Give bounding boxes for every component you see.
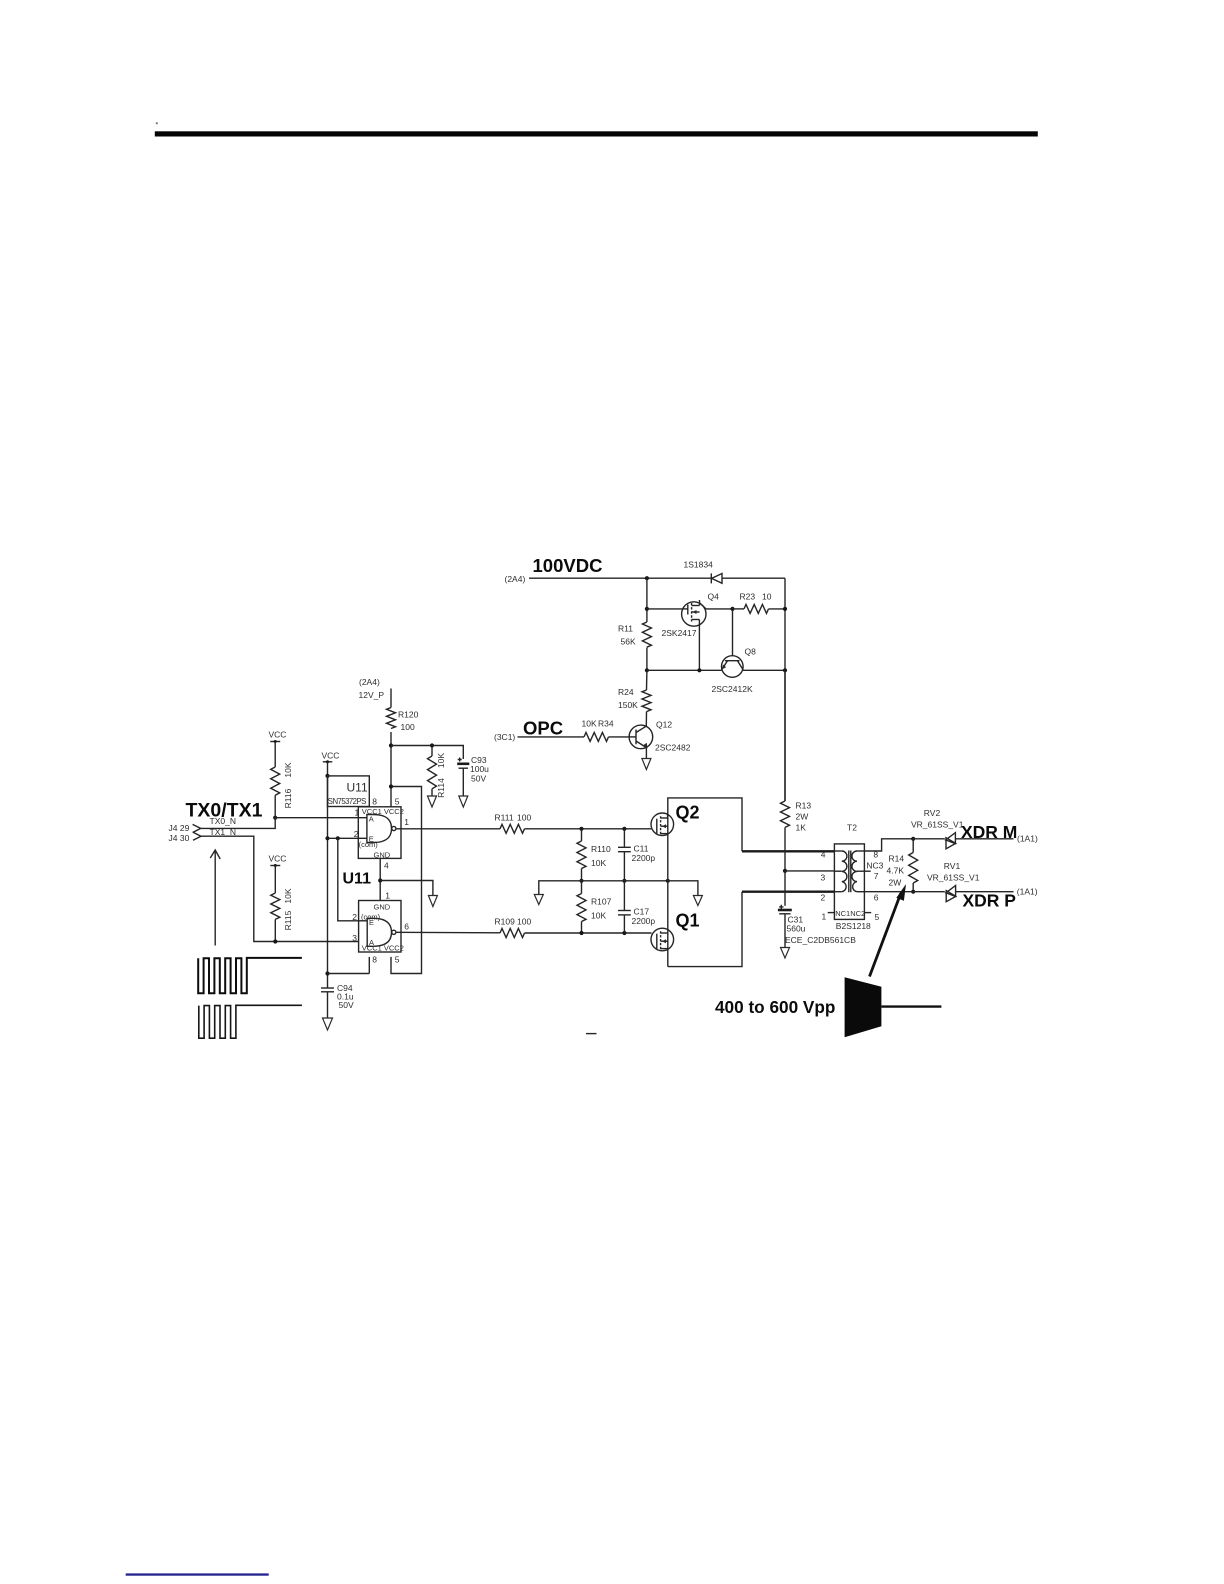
svg-text:5: 5 [395, 797, 400, 807]
svg-text:3: 3 [821, 873, 826, 883]
node junction mid row box edge [666, 879, 670, 883]
capacitor C17 2200p [618, 881, 655, 933]
node junction R14 bottom [911, 890, 915, 894]
svg-text:50V: 50V [339, 1000, 354, 1010]
svg-text:(2A4): (2A4) [359, 677, 380, 687]
capacitor C31 560u [778, 905, 856, 947]
resistor R14 4.7K 2W [887, 839, 918, 892]
transformer T2 B2S1218 [821, 823, 884, 931]
wire Q12 emitter [645, 748, 647, 758]
svg-text:150K: 150K [618, 700, 638, 710]
wire C31 stem [784, 871, 786, 906]
svg-text:XDR P: XDR P [963, 891, 1017, 911]
transistor Q8 2SC2412K [712, 647, 757, 695]
node junction C17 bottom [622, 931, 626, 935]
svg-text:Q2: Q2 [676, 803, 700, 823]
svg-text:2200p: 2200p [632, 916, 656, 926]
label XDR M [961, 822, 1017, 842]
wire pin4 ground branch [380, 881, 433, 896]
svg-text:100u: 100u [470, 764, 489, 774]
pin 6 label output [404, 922, 409, 932]
annotation up-arrow [210, 850, 220, 946]
wire E input row [328, 837, 359, 839]
sheet ref (1A1) lower [1017, 887, 1038, 897]
wire 12V_P rail [390, 689, 392, 808]
resistor R116 10K [271, 742, 293, 818]
svg-text:R114: R114 [436, 778, 446, 798]
svg-text:VCC: VCC [269, 730, 287, 740]
svg-text:R24: R24 [618, 687, 634, 697]
pin 3 label lower gate [352, 933, 357, 943]
pin 2 label lower gate [352, 912, 357, 922]
ground mid right [693, 896, 702, 906]
capacitor C11 2200p [618, 829, 655, 881]
pin 5 label lower gate [395, 955, 400, 965]
ground below C31 [781, 948, 790, 959]
svg-text:GND: GND [374, 850, 391, 859]
transistor Q4 2SK2417 MOSFET [662, 592, 733, 671]
svg-text:5: 5 [395, 955, 400, 965]
svg-text:VR_61SS_V1: VR_61SS_V1 [911, 819, 964, 829]
resistor R114 10K [428, 746, 447, 798]
wire 100VDC horizontal [529, 577, 711, 579]
svg-text:4: 4 [384, 861, 389, 871]
wire XDR P line [864, 891, 1013, 893]
gate U11B box [359, 901, 404, 953]
resistor R11 56K [618, 578, 651, 670]
pin 1 label lower gate top [385, 891, 390, 901]
node junction R11 bottom [645, 668, 649, 672]
wire T2 pin3 [785, 870, 834, 872]
node junction pin4 / gnd branch [378, 878, 382, 882]
power VCC (R116) [269, 730, 287, 744]
pin 1 label output [404, 817, 409, 827]
svg-text:U11: U11 [347, 781, 368, 795]
transistor Q2 MOSFET [651, 803, 700, 836]
wire R114 C93 row [391, 746, 463, 760]
svg-text:2W: 2W [796, 812, 809, 822]
svg-text:8: 8 [372, 797, 377, 807]
waveform lower square wave [199, 1005, 302, 1038]
net label TX1_N [210, 827, 236, 837]
pin 5 label top gate [395, 797, 400, 807]
wire Q8 base vertical [732, 609, 734, 656]
svg-text:10: 10 [762, 592, 772, 602]
node junction R13 bottom / T2 pin3 [783, 869, 787, 873]
svg-text:56K: 56K [621, 637, 636, 647]
svg-text:R23: R23 [740, 592, 756, 602]
svg-text:Q12: Q12 [656, 720, 672, 730]
wire mid row [582, 880, 668, 882]
node junction R109 / R107 [579, 931, 583, 935]
resistor R120 100 [387, 708, 419, 733]
label TX0/TX1 [186, 800, 263, 822]
svg-text:1S1834: 1S1834 [684, 560, 714, 570]
svg-text:R116: R116 [283, 788, 293, 808]
svg-text:J4 29: J4 29 [169, 823, 190, 833]
svg-text:C11: C11 [634, 844, 649, 854]
transducer symbol (black horn) [845, 977, 882, 1037]
wire TX1_N [201, 836, 359, 941]
svg-text:4: 4 [821, 850, 826, 860]
svg-text:R111: R111 [495, 813, 514, 823]
waveform upper square wave [198, 958, 302, 993]
svg-text:R34: R34 [598, 719, 614, 729]
svg-text:8: 8 [372, 955, 377, 965]
power VCC (R115) [269, 854, 287, 868]
svg-text:10K: 10K [283, 762, 293, 777]
svg-text:3: 3 [352, 933, 357, 943]
node junction R115 / TX1 wire [273, 939, 277, 943]
svg-text:A: A [369, 938, 374, 947]
wire TX0_N [201, 818, 359, 829]
svg-text:100VDC: 100VDC [533, 555, 603, 576]
resistor R110 10K [577, 829, 611, 881]
small dash mark [586, 1033, 597, 1035]
sheet ref (2A4) [505, 574, 526, 584]
svg-text:E: E [369, 918, 374, 927]
svg-text:RV2: RV2 [924, 808, 941, 818]
node junction R116 / TX0 wire [273, 816, 277, 820]
BOTTOM navy rule [126, 1573, 269, 1575]
svg-text:6: 6 [874, 892, 879, 902]
wire from transducer [881, 1005, 941, 1007]
driver block box [668, 798, 742, 967]
node junction rail / U11 bottom row [325, 971, 329, 975]
svg-text:2200p: 2200p [632, 853, 656, 863]
wire primary top (thick) [742, 850, 834, 852]
node junction rail / U11 box top [325, 774, 329, 778]
svg-text:R120: R120 [398, 710, 419, 720]
svg-text:10K: 10K [591, 911, 606, 921]
ground below pin4 branch [428, 896, 437, 907]
svg-text:7: 7 [874, 871, 879, 881]
svg-text:Q1: Q1 [676, 911, 700, 931]
svg-text:2SK2417: 2SK2417 [662, 628, 697, 638]
node junction R23 right rail [783, 607, 787, 611]
node junction E row branch [336, 836, 340, 840]
header rule [155, 122, 1038, 136]
node junction 12V rail / pin5 [389, 784, 393, 788]
svg-text:50V: 50V [471, 774, 486, 784]
svg-text:RV1: RV1 [944, 861, 961, 871]
svg-text:2W: 2W [889, 878, 902, 888]
transistor Q12 2SC2482 [629, 720, 691, 753]
node junction on 100VDC line [645, 576, 649, 580]
annotation big arrow [870, 884, 907, 977]
net label TX0_N [210, 816, 236, 826]
resistor R107 10K [577, 881, 612, 933]
diode D1 1S1834 [684, 560, 786, 584]
svg-text:10K: 10K [283, 888, 293, 903]
ground below C94 [323, 1018, 333, 1030]
node junction 12V rail / R114 row [389, 743, 393, 747]
svg-text:2: 2 [352, 912, 357, 922]
svg-text:1K: 1K [796, 823, 807, 833]
gate U11A NAND shape [358, 814, 396, 843]
resistor R13 2W 1K [781, 670, 812, 871]
svg-text:(1A1): (1A1) [1017, 834, 1038, 844]
svg-text:1: 1 [404, 817, 409, 827]
wire U11 left rail [327, 762, 329, 988]
wire T2 pin8 to XDR M [864, 839, 913, 851]
svg-text:R115: R115 [283, 910, 293, 930]
resistor R34 10K [582, 719, 630, 742]
svg-text:100: 100 [517, 813, 531, 823]
svg-text:(3C1): (3C1) [494, 732, 515, 742]
svg-text:R107: R107 [591, 897, 612, 907]
svg-text:NC1NC2: NC1NC2 [835, 909, 865, 918]
svg-text:Q4: Q4 [708, 592, 720, 602]
pin 8 label lower gate [372, 955, 377, 965]
op-amp U11 label box SN75372PS [328, 776, 370, 807]
svg-text:4.7K: 4.7K [887, 866, 905, 876]
svg-text:R13: R13 [796, 801, 812, 811]
svg-text:12V_P: 12V_P [359, 690, 385, 700]
node junction mid row R110 [579, 879, 583, 883]
wire right rail vertical [784, 578, 786, 801]
node junction Q8 collector rail [783, 668, 787, 672]
node junction R11 top / Q4 gate [645, 607, 649, 611]
node junction R114 top [430, 743, 434, 747]
ground below C93 [459, 796, 468, 807]
svg-text:(2A4): (2A4) [505, 574, 526, 584]
svg-text:6: 6 [404, 922, 409, 932]
wire mid right ground branch [668, 881, 698, 895]
svg-text:R109: R109 [495, 917, 516, 927]
svg-text:VCC: VCC [269, 854, 287, 864]
connector pin J4 29 [169, 823, 201, 833]
svg-text:R14: R14 [889, 854, 905, 864]
net label OPC [523, 718, 563, 739]
svg-text:1: 1 [385, 891, 390, 901]
sheet ref (1A1) upper [1017, 834, 1038, 844]
svg-text:2SC2482: 2SC2482 [655, 743, 691, 753]
svg-text:R11: R11 [618, 624, 633, 634]
sheet ref (2A4) 12V_P [359, 677, 385, 700]
svg-text:1: 1 [822, 912, 827, 922]
capacitor C94 0.1u 50V [321, 983, 354, 1018]
power VCC (U11 rail) [322, 750, 340, 763]
gate U11B NAND shape [359, 918, 396, 947]
wire Q4 gate [647, 608, 683, 610]
svg-text:ECE_C2DB561CB: ECE_C2DB561CB [785, 935, 856, 945]
node junction R111 / R110 [579, 827, 583, 831]
resistor R109 100 [495, 917, 652, 938]
svg-text:2: 2 [354, 829, 359, 839]
wire Q8 row [647, 669, 785, 671]
annotation 400 to 600 Vpp [715, 997, 835, 1017]
svg-text:E: E [369, 834, 374, 843]
svg-text:100: 100 [517, 917, 531, 927]
resistor R23 10 [733, 592, 786, 614]
wire gate1 output to R111 [396, 828, 500, 830]
pin 1 label input [355, 807, 360, 817]
svg-text:100: 100 [401, 722, 415, 732]
gate U11A box [358, 807, 404, 860]
node junction rail / gate E row [325, 836, 329, 840]
resistor R24 150K [618, 670, 651, 726]
svg-text:VR_61SS_V1: VR_61SS_V1 [927, 872, 980, 882]
pin 8 label top gate [372, 797, 377, 807]
svg-text:5: 5 [875, 912, 880, 922]
svg-text:J4 30: J4 30 [169, 833, 190, 843]
varistor RV1 VR_61SS_V1 [927, 861, 980, 902]
wire gate2 output to R109 [396, 931, 500, 934]
svg-text:VCC: VCC [322, 750, 340, 760]
svg-text:2: 2 [821, 892, 826, 902]
resistor R115 10K [271, 866, 293, 942]
svg-text:10K: 10K [582, 719, 597, 729]
svg-text:2SC2412K: 2SC2412K [712, 684, 753, 694]
sheet ref (3C1) [494, 732, 515, 742]
resistor R111 100 [495, 813, 652, 834]
svg-text:1: 1 [355, 807, 360, 817]
svg-text:NC3: NC3 [866, 861, 883, 871]
pin 2 label input [354, 829, 359, 839]
svg-text:T2: T2 [847, 823, 857, 833]
wire mid ground branch [539, 881, 582, 894]
transistor Q1 MOSFET [651, 911, 700, 951]
svg-text:400 to 600 Vpp: 400 to 600 Vpp [715, 997, 835, 1017]
wire OPC [518, 736, 585, 738]
node junction Q4 source on Q8 row [697, 668, 701, 672]
svg-text:U11: U11 [343, 871, 372, 888]
wire XDR M line [913, 838, 1013, 840]
net label 100VDC [533, 555, 603, 576]
ground below Q12 [642, 759, 651, 770]
label XDR P [963, 891, 1017, 911]
node junction R14 top [911, 837, 915, 841]
varistor RV2 VR_61SS_V1 [911, 808, 964, 849]
connector pin J4 30 [169, 832, 202, 843]
node junction mid row C11/C17 [622, 879, 626, 883]
svg-text:A: A [369, 814, 374, 823]
svg-text:XDR M: XDR M [961, 822, 1017, 842]
svg-text:OPC: OPC [523, 718, 563, 739]
svg-text:Q8: Q8 [745, 647, 757, 657]
svg-text:SN75372PS: SN75372PS [328, 797, 366, 806]
wire pin 4 vertical [380, 858, 389, 900]
label U11 big [343, 871, 372, 888]
svg-text:TX0_N: TX0_N [210, 816, 236, 826]
svg-text:C17: C17 [634, 907, 650, 917]
capacitor C93 100u 50V [457, 755, 489, 796]
svg-text:10K: 10K [591, 858, 606, 868]
node junction C11 top [622, 827, 626, 831]
wire primary bottom (thick) [742, 891, 834, 893]
svg-text:GND: GND [374, 902, 391, 911]
node junction Q4 drain / R23 [730, 607, 734, 611]
ground below R114 [428, 796, 437, 807]
svg-text:10K: 10K [436, 753, 446, 768]
svg-text:560u: 560u [787, 924, 806, 934]
svg-text:(1A1): (1A1) [1017, 887, 1038, 897]
ground mid left [534, 895, 543, 905]
wire E branch to lower gate pin2 [338, 838, 359, 921]
U11 outer boundary box [328, 787, 422, 974]
svg-text:B2S1218: B2S1218 [836, 921, 871, 931]
svg-text:R110: R110 [591, 844, 611, 854]
